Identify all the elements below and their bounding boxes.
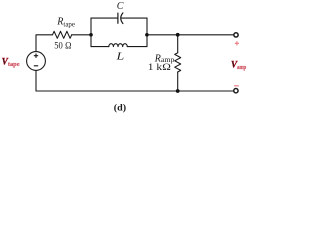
wire bottom branch left of inductor <box>91 46 109 48</box>
wire top branch right of capacitor <box>122 17 147 19</box>
svg-text:C: C <box>117 1 124 12</box>
voltage source Vtape circle <box>27 52 46 71</box>
wire bottom rail from source to bottom terminal <box>36 70 233 91</box>
voltage source minus sign <box>34 65 38 67</box>
wire left vertical of LC loop <box>90 18 92 46</box>
resistor R_amp zigzag <box>175 53 181 72</box>
wire resistor to node A <box>72 34 91 36</box>
label L <box>115 50 124 62</box>
bottom output terminal <box>234 89 238 93</box>
node R_amp top junction dot <box>176 33 180 37</box>
wire R_amp top lead <box>177 35 179 53</box>
output minus sign red <box>234 85 239 87</box>
node A junction dot <box>89 33 93 37</box>
wire bottom branch right of inductor <box>127 46 147 48</box>
svg-text:1 kΩ: 1 kΩ <box>148 62 171 73</box>
wire top branch left of capacitor <box>91 17 118 19</box>
top output terminal <box>234 33 238 37</box>
resistor R_tape zigzag <box>53 31 72 38</box>
svg-text:L: L <box>115 50 124 62</box>
capacitor C left plate <box>117 13 119 23</box>
output plus sign red <box>235 41 239 45</box>
node R_amp bottom junction dot <box>176 89 180 93</box>
node B junction dot <box>145 33 149 37</box>
wire top-left from source to resistor <box>36 35 53 52</box>
svg-text:(d): (d) <box>114 102 126 113</box>
wire R_amp bottom lead <box>177 72 179 91</box>
inductor L coil <box>109 44 127 47</box>
capacitor C right curved plate <box>121 13 123 24</box>
svg-text:50 Ω: 50 Ω <box>54 41 71 52</box>
wire node B to top terminal <box>147 34 233 36</box>
wire right vertical of LC loop <box>146 18 148 46</box>
voltage source plus sign <box>34 54 38 58</box>
